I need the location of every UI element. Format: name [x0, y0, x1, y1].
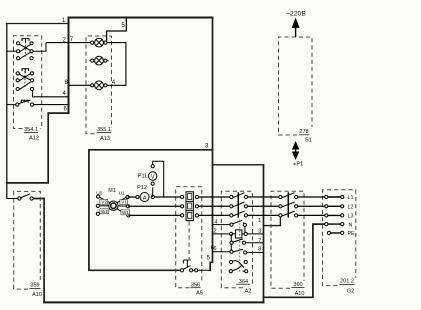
wire g2 output (4) [33, 91, 69, 97]
~220V arrow [292, 18, 300, 38]
wire bottom to N [264, 224, 327, 297]
stubs [99, 197, 109, 213]
svg-text:360: 360 [293, 282, 302, 288]
wire lamp3 feed [69, 84, 93, 86]
wire right edge vertical [263, 165, 265, 303]
arrow to P1 (double headed) [292, 141, 299, 160]
contact arm g3 [19, 100, 31, 104]
wire row1 P12->block [153, 196, 182, 198]
terminals g2 [16, 72, 33, 91]
svg-text:А10: А10 [295, 291, 305, 297]
contact arms g2 [19, 74, 30, 80]
terminals g3 [16, 103, 34, 106]
svg-text:А5: А5 [196, 291, 203, 297]
svg-text:P1: P1 [296, 162, 303, 168]
lamp HL1 [91, 38, 107, 47]
svg-text:А13: А13 [100, 136, 110, 142]
wire g3 left feed [7, 104, 16, 106]
svg-text:355.1: 355.1 [97, 127, 111, 133]
actuator bracket g3 [21, 100, 28, 102]
svg-text:U2: U2 [96, 190, 102, 196]
svg-text:6: 6 [214, 246, 217, 252]
svg-text:1: 1 [258, 218, 261, 224]
wire A10 out down [32, 199, 44, 303]
svg-text:~220В: ~220В [286, 11, 306, 18]
wire main bus vertical [68, 18, 70, 114]
svg-text:G2: G2 [347, 289, 354, 295]
wire 3 horizontal [89, 149, 213, 151]
svg-text:278: 278 [299, 129, 308, 135]
lamp HL2 [89, 56, 108, 65]
dashed enclosure A2 [221, 191, 252, 288]
wire row1 motor->P12 [128, 196, 137, 198]
svg-text:PE: PE [348, 231, 356, 237]
dashed enclosure A11 [271, 191, 304, 288]
wire 1 top-left [7, 23, 69, 25]
svg-text:А2: А2 [245, 289, 252, 295]
wire row1 K2->G2 [296, 196, 326, 198]
dashed enclosure A5 [176, 187, 202, 288]
wire row2 [128, 205, 326, 207]
dashed enclosure B1 power unit [279, 37, 313, 135]
svg-text:V2: V2 [101, 199, 107, 204]
svg-text:P12: P12 [137, 185, 147, 191]
terminals g1 [17, 42, 34, 60]
wire g1 output jog [33, 43, 46, 52]
svg-text:М1: М1 [108, 188, 116, 194]
svg-text:W1: W1 [122, 210, 129, 215]
wire 5 jog [107, 18, 127, 43]
actuator bracket g2 [22, 69, 29, 73]
svg-text:L3: L3 [348, 214, 354, 220]
wire g1 left feed [7, 50, 17, 52]
dashed enclosure A12 [14, 36, 42, 129]
wire top horizontal [69, 17, 213, 19]
svg-text:354.1: 354.1 [24, 127, 38, 133]
svg-text:201.2: 201.2 [340, 279, 354, 285]
wire bus jog down-left [7, 113, 69, 183]
svg-text:V: V [151, 174, 155, 180]
wire inner box top [213, 164, 264, 166]
actuator bracket g1 [22, 39, 29, 43]
wire left bus vertical [6, 24, 8, 199]
dashed enclosure A13 [86, 36, 112, 134]
contact arms g1 [19, 44, 30, 50]
wire g3 output (6) [34, 104, 69, 106]
svg-text:V1: V1 [121, 200, 127, 205]
wire lamp1 right link [105, 43, 126, 86]
wire row3 [128, 214, 326, 216]
plug divider X1 [188, 221, 190, 259]
svg-text:L1: L1 [348, 195, 354, 201]
wire bottom bus [44, 301, 263, 303]
dashed enclosure G2 [323, 190, 356, 286]
wire K2 jog [264, 215, 281, 225]
wire lamp1 feed from bus [46, 42, 92, 44]
svg-text:8: 8 [258, 247, 261, 253]
svg-text:A: A [143, 195, 147, 201]
wire motor-frame left [89, 150, 182, 270]
svg-text:2: 2 [214, 229, 217, 235]
svg-text:4: 4 [215, 219, 218, 225]
wire row1 block->K1 [197, 196, 231, 198]
svg-text:359: 359 [30, 283, 39, 289]
dashed enclosure A10 [14, 191, 41, 289]
svg-text:3: 3 [258, 229, 261, 235]
wire row1 K1->K2 [246, 196, 281, 198]
svg-text:N: N [349, 222, 353, 228]
svg-text:L2: L2 [348, 205, 354, 211]
svg-text:P11: P11 [138, 174, 147, 180]
svg-text:А10: А10 [32, 292, 42, 298]
svg-text:7: 7 [258, 238, 261, 244]
svg-text:W2: W2 [101, 209, 108, 214]
motor labels [100, 199, 130, 214]
svg-text:U1: U1 [119, 191, 125, 197]
lamp HL3 [91, 81, 107, 90]
svg-text:Б1: Б1 [305, 138, 312, 144]
wire right vertical trunk [210, 18, 212, 271]
svg-text:А12: А12 [29, 136, 39, 142]
